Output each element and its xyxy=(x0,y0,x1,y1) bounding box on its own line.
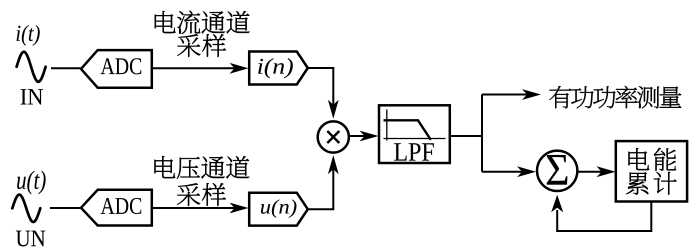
label ADC (bottom) xyxy=(101,198,142,214)
LPF response curve xyxy=(384,120,431,140)
label i(t) xyxy=(17,25,40,46)
wire LPF to branch junction xyxy=(450,95,482,172)
label i(n) xyxy=(258,58,293,78)
label 采样 (voltage) xyxy=(177,183,200,206)
label u(n) xyxy=(261,199,296,217)
wire: UN source to ADC2 xyxy=(50,207,81,209)
ADC U1 (current channel) pentagon xyxy=(81,50,152,88)
wire i(n) to multiplier (down) with arrowhead xyxy=(308,68,334,105)
label UN xyxy=(16,231,45,247)
LPF filter block xyxy=(379,105,450,163)
multiplier X symbol xyxy=(327,131,339,143)
source UN sine symbol xyxy=(12,195,40,222)
ADC U2 (voltage channel) pentagon xyxy=(81,190,152,226)
wire sigma to energy box xyxy=(577,171,603,173)
branch wire to active-power output xyxy=(482,94,528,96)
label ADC (top) xyxy=(101,58,142,74)
label IN xyxy=(21,89,43,104)
wire multiplier to LPF with arrowhead xyxy=(349,135,366,137)
source IN sine symbol xyxy=(17,52,46,82)
label 电压通道 xyxy=(154,156,175,178)
branch wire to sigma xyxy=(482,171,523,173)
label 采样 (current) xyxy=(177,34,200,57)
node i(n) tag xyxy=(249,52,308,85)
multiplier X circle xyxy=(318,121,349,152)
LPF graph axes xyxy=(384,110,446,141)
label 有功功率测量 xyxy=(549,86,571,108)
wire u(n) to multiplier (up) with arrowhead xyxy=(308,168,334,209)
label 累计 xyxy=(626,172,648,195)
label 电能 xyxy=(628,148,649,170)
sigma symbol xyxy=(547,155,568,185)
label 电流通道 xyxy=(155,11,176,33)
summation sigma circle xyxy=(537,151,577,191)
wire ADC1 to i(n) with arrowhead xyxy=(152,67,235,69)
energy accumulation box xyxy=(616,141,687,201)
wire: IN source to ADC1 xyxy=(51,67,81,69)
node u(n) tag xyxy=(249,193,308,226)
feedback wire energy box to sigma xyxy=(557,202,651,232)
label u(t) xyxy=(17,171,46,195)
wire ADC2 to u(n) with arrowhead xyxy=(152,207,235,209)
label LPF xyxy=(394,143,434,160)
